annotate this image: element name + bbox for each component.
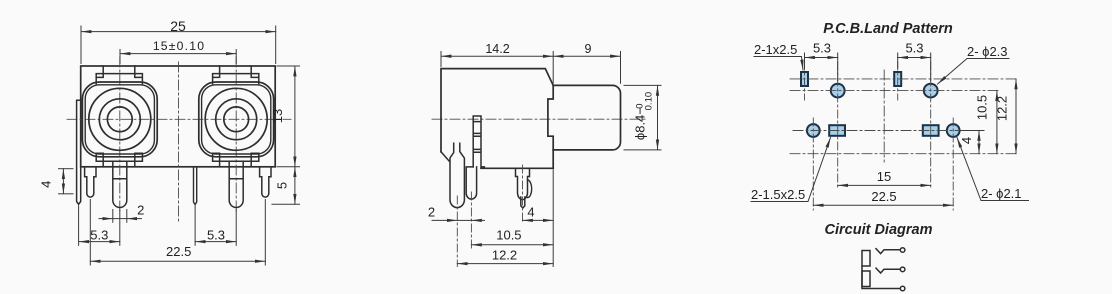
dim 13 [277,66,300,167]
dim 10.5 land [996,91,998,154]
dim 4 side [523,219,554,221]
svg-text:15±0.10: 15±0.10 [153,39,205,53]
pad rect top left [801,72,808,86]
dim 12.2 land [1015,79,1017,154]
centerline pad column 1 [804,62,806,100]
dim 5.3 land right [898,53,931,81]
centerline vertical jack L [119,57,121,212]
jack R top tab [213,66,259,84]
jack R rim outer [199,82,274,157]
terminal 3 [900,286,905,291]
svg-text:4: 4 [39,181,54,188]
LAND PATTERN [751,21,1029,210]
dim 22.5 land [813,204,953,206]
body bottom edge side [481,167,553,169]
centerline horizontal side [432,118,648,120]
switch arm 2 [876,268,900,273]
centerline horizontal front [67,118,291,120]
centerline center pin side [522,165,524,224]
pad circle top left [831,84,845,98]
centerline pad circle br [952,118,954,210]
svg-text:ϕ8.4−: ϕ8.4− [633,107,648,140]
centerline divider middle [178,62,180,222]
svg-text:5.3: 5.3 [207,228,225,243]
terminal 2 [900,267,905,272]
svg-text:2: 2 [428,205,435,220]
centerline pad column 2 [837,62,839,190]
body outline front [81,66,276,167]
svg-text:15: 15 [877,169,891,184]
centerline row rects [790,78,1018,80]
dim 5.3 land left [805,53,838,81]
center pin side [516,168,530,208]
dim 5.3 right [195,206,236,245]
dim 15 land [838,184,931,186]
bracket left front [77,100,81,204]
dim 2 side [432,219,485,221]
side pin L front [85,167,96,197]
jack L outer circle [89,88,151,150]
jack R rim inner [202,85,271,154]
jack contact rect 1 [862,251,870,267]
pad rect bottom right [923,125,939,136]
common ground wire [862,266,900,289]
svg-text:22.5: 22.5 [166,244,191,259]
svg-text:22.5: 22.5 [871,189,896,204]
jack R inner circle [224,107,249,132]
center pin R front [229,161,243,207]
svg-text:4: 4 [959,137,974,144]
dim 4 left [59,169,74,194]
dim 2 front [99,210,142,223]
svg-text:13: 13 [270,109,285,123]
SIDE VIEW [428,42,661,267]
FRONT VIEW [39,18,300,265]
svg-text:10.5: 10.5 [496,228,521,243]
svg-text:25: 25 [170,18,186,34]
centerline leg A [456,196,458,267]
centerline vertical jack R [235,57,237,212]
svg-text:P.C.B.Land Pattern: P.C.B.Land Pattern [823,21,953,37]
svg-text:2- ϕ2.3: 2- ϕ2.3 [967,44,1008,59]
dim 12.2 [457,263,553,265]
centerline leg B [470,192,472,248]
svg-text:5.3: 5.3 [905,41,923,56]
centerline pad column 4 [930,62,932,190]
jack R bottom tab [213,153,259,167]
jack L bottom tab [96,153,142,167]
dim 5.3 left [79,206,120,245]
pad circle top right [924,84,938,98]
dim 14.2 [441,52,553,84]
pad circle bottom right [947,124,960,137]
centerline pad circle bl [812,118,814,210]
dim 9 [553,52,620,84]
svg-text:12.2: 12.2 [492,248,517,263]
jack L rim outer [82,82,157,157]
center pin L front [113,161,127,207]
ext line right side [552,170,554,267]
dim phi 8.4 [624,85,661,149]
jack L middle circle [99,99,140,140]
body outline side [441,69,553,169]
jack L rim inner [85,85,154,154]
svg-text:0.10: 0.10 [644,92,655,111]
svg-text:9: 9 [585,42,592,56]
contact lobe side [528,180,532,198]
dim 15±0.10 [120,50,236,64]
jack R outer circle [205,88,267,150]
pad circle bottom left [807,124,820,137]
svg-text:10.5: 10.5 [975,95,990,120]
svg-text:5: 5 [275,182,290,189]
svg-text:2-1x2.5: 2-1x2.5 [754,42,797,57]
dim 5 right [272,167,300,204]
pad rect top mid [894,72,901,86]
centerline row circles top [790,90,1001,92]
centerline pad column 3 [897,62,899,100]
pad rect bottom left [829,125,845,136]
dim 4 land [960,131,984,154]
side pin R front [260,167,271,197]
centerline row bottom [793,130,984,132]
jack R middle circle [216,99,257,140]
svg-text:5.3: 5.3 [813,41,831,56]
jack contact rect 2 [862,271,870,287]
svg-text:12.2: 12.2 [995,96,1010,121]
dim 22.5 front [90,200,265,266]
terminal 1 [900,248,905,253]
dim 25 [81,26,276,64]
leg A side [441,143,464,207]
svg-text:Circuit Diagram: Circuit Diagram [825,222,933,238]
svg-text:14.2: 14.2 [485,42,509,56]
svg-text:2- ϕ2.1: 2- ϕ2.1 [981,186,1022,201]
centerline base row [790,153,1018,155]
switch arm 1 [876,249,900,254]
svg-text:2-1.5x2.5: 2-1.5x2.5 [751,187,805,202]
middle shield pin front [194,167,197,205]
barrel side [553,85,620,149]
jack L top tab [96,66,142,84]
jack L inner circle [107,107,132,132]
svg-text:4: 4 [527,205,534,220]
svg-text:5.3: 5.3 [90,228,108,243]
CIRCUIT [825,222,933,291]
dim 10.5 [471,244,553,246]
leg B side [466,167,476,199]
svg-text:2: 2 [137,203,144,218]
contact strip side [473,116,484,168]
centerline vertical middle [883,70,885,162]
